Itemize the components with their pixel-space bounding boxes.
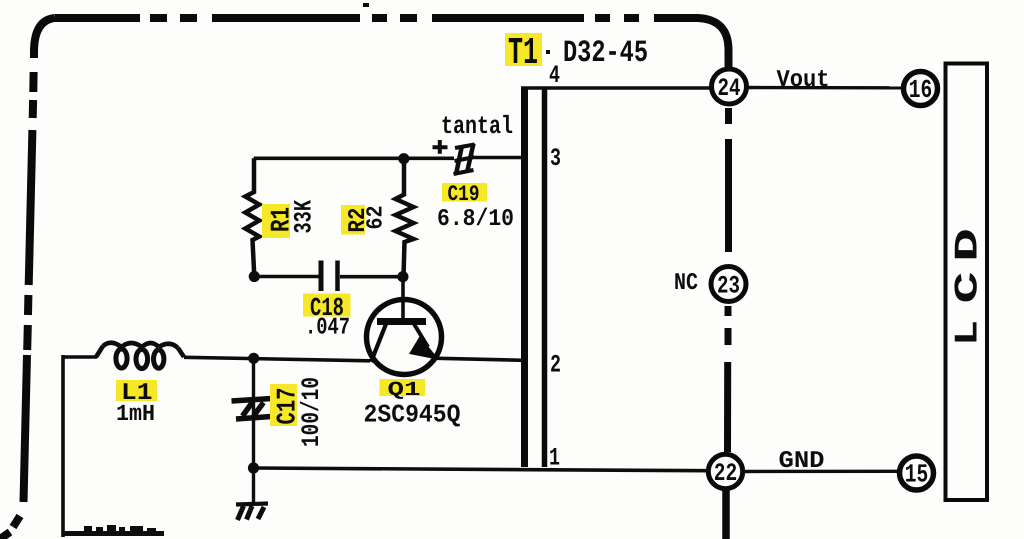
LCD box (946, 64, 988, 501)
wire C17 vertical (252, 358, 255, 468)
svg-text:4: 4 (549, 61, 560, 90)
C18 highlight (303, 294, 351, 317)
svg-text:Q1: Q1 (388, 379, 421, 402)
resistor R2 (396, 160, 414, 277)
svg-text:D32-45: D32-45 (563, 36, 648, 71)
wire C18 rail (254, 275, 318, 279)
svg-text:L: L (950, 320, 987, 346)
thick dashed net 23-22 (724, 306, 732, 452)
thick wire below pin 22 (722, 490, 730, 539)
svg-text:D: D (950, 228, 987, 262)
junction dot R1 bottom (249, 271, 260, 282)
C19 highlight (442, 183, 487, 202)
transistor Q1 (367, 300, 442, 375)
dashed shield border top-left corner (34, 18, 55, 52)
L1 highlight (116, 380, 157, 401)
svg-text:C: C (950, 272, 987, 304)
plus sign (433, 140, 448, 154)
wire L1 rail left (63, 355, 97, 359)
svg-text:2SC945Q: 2SC945Q (364, 401, 461, 430)
svg-text:1: 1 (549, 444, 560, 473)
junction dot bottom rail (248, 462, 259, 473)
wire 22 to 15 (744, 470, 898, 474)
wire pin4 to 24 to 16 (521, 86, 711, 89)
svg-text:62: 62 (363, 206, 389, 230)
svg-text:23: 23 (717, 272, 740, 301)
R1 highlight (262, 204, 290, 238)
wire L1 rail to Q1 (184, 357, 370, 361)
wire top rail (R1 to C19 to pin3) (254, 157, 454, 161)
svg-text:16: 16 (909, 75, 933, 105)
terminal circle 22 (708, 454, 742, 488)
transformer T1 core bars (521, 87, 528, 467)
svg-text:.047: .047 (305, 315, 350, 342)
svg-text:100/10: 100/10 (297, 377, 326, 447)
bottom cut-off artifact line (62, 531, 164, 536)
junction dot rail C17 (248, 353, 259, 364)
C17 highlight (270, 384, 297, 426)
terminal circle 15 (900, 456, 934, 490)
svg-text:24: 24 (718, 74, 741, 103)
svg-text:6.8/10: 6.8/10 (437, 206, 514, 233)
terminal circle 24 (712, 69, 747, 104)
scan dot after T1 (546, 50, 550, 54)
thick dashed net 24-23 (725, 108, 732, 252)
Q1 highlight (380, 379, 426, 396)
svg-text:15: 15 (905, 460, 929, 490)
ground below C17 (236, 468, 268, 520)
label LCD (950, 228, 987, 346)
svg-text:3: 3 (550, 144, 561, 173)
wire pin2 from transistor (433, 358, 524, 360)
resistor R1 (245, 158, 259, 276)
svg-text:33K: 33K (290, 200, 319, 234)
T1 highlight (505, 33, 542, 66)
dashed shield border top (55, 14, 639, 22)
svg-text:22: 22 (714, 459, 738, 488)
svg-text:GND: GND (779, 448, 825, 475)
wire left drop (61, 355, 65, 537)
capacitor C19 tantal (454, 144, 475, 175)
svg-text:NC: NC (674, 270, 698, 297)
terminal circle 16 (904, 72, 938, 106)
wire bottom rail pin1 to 22 (253, 468, 707, 471)
dashed shield border top-right corner into pin 24 (654, 18, 729, 67)
terminal circle 23 (711, 267, 746, 302)
wire base vertical (401, 277, 405, 322)
inductor L1 (96, 343, 184, 357)
dashed shield border left side (0, 48, 34, 539)
svg-text:1mH: 1mH (116, 401, 155, 427)
svg-text:Vout: Vout (777, 67, 830, 94)
capacitor C17 (232, 399, 272, 420)
junction dot top rail R2 (398, 153, 409, 164)
svg-text:T1: T1 (508, 32, 538, 75)
scan speck (363, 3, 369, 7)
R2 highlight (341, 205, 365, 235)
junction dot R2 bottom (397, 271, 408, 282)
capacitor C18 (319, 261, 324, 292)
svg-text:C19: C19 (448, 182, 480, 207)
svg-text:tantal: tantal (441, 112, 513, 141)
svg-text:2: 2 (550, 351, 561, 380)
